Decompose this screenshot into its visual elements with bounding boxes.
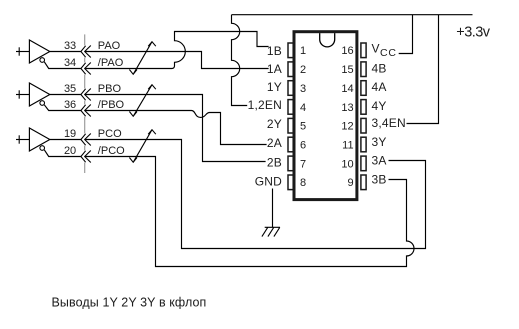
svg-text:PAO: PAO xyxy=(98,40,121,52)
IC notch xyxy=(320,33,335,47)
connector contact pin 36 (chevron pair) xyxy=(81,105,91,117)
pin 1 stub xyxy=(288,43,293,58)
svg-text:PBO: PBO xyxy=(98,83,122,95)
pin 9 stub xyxy=(361,175,366,190)
wire: 3,4EN to +3.3V rail xyxy=(407,15,439,124)
pin 15 stub xyxy=(361,62,366,77)
twisted-pair mark C xyxy=(129,130,155,163)
pin 12 stub xyxy=(361,118,366,133)
svg-text:2: 2 xyxy=(300,64,306,76)
wire: PAO to pin 1A xyxy=(85,52,269,69)
svg-text:33: 33 xyxy=(64,40,76,52)
connector contact pin 19 (chevron pair) xyxy=(81,134,91,146)
buffer/driver B triangle xyxy=(29,83,49,106)
pin 8 stub xyxy=(288,175,293,190)
svg-text:PCO: PCO xyxy=(98,128,122,140)
wire: buffer B non-inverting output to connector xyxy=(50,94,81,96)
svg-text:19: 19 xyxy=(64,128,76,140)
svg-text:3Y: 3Y xyxy=(372,135,387,149)
svg-text:20: 20 xyxy=(64,145,76,157)
pin 3 stub xyxy=(288,81,293,96)
wire: buffer B input stub xyxy=(16,94,29,96)
svg-text:3A: 3A xyxy=(372,154,387,168)
twisted-pair mark A xyxy=(129,42,155,75)
twisted-pair mark B xyxy=(129,85,155,117)
IC U1 DIP-16 body xyxy=(294,32,357,200)
svg-text:1A: 1A xyxy=(267,62,282,76)
svg-text:14: 14 xyxy=(341,83,353,95)
buffer A inverting bubble xyxy=(40,58,45,63)
svg-text:12: 12 xyxy=(341,121,353,133)
svg-text:6: 6 xyxy=(300,139,306,151)
svg-text:9: 9 xyxy=(347,177,353,189)
svg-text:CC: CC xyxy=(380,47,397,59)
svg-text:2Y: 2Y xyxy=(267,117,282,131)
svg-text:/PAO: /PAO xyxy=(98,57,124,69)
svg-text:4Y: 4Y xyxy=(372,99,387,113)
svg-text:4A: 4A xyxy=(372,80,387,94)
svg-text:/PCO: /PCO xyxy=(98,145,125,157)
svg-text:10: 10 xyxy=(341,158,353,170)
buffer C inverting bubble xyxy=(40,146,45,151)
buffer/driver C triangle xyxy=(29,128,49,151)
svg-text:2B: 2B xyxy=(267,155,282,169)
svg-text:1,2EN: 1,2EN xyxy=(248,98,282,112)
svg-text:4: 4 xyxy=(300,102,306,114)
svg-text:Выводы 1Y 2Y 3Y в кфлоп: Выводы 1Y 2Y 3Y в кфлоп xyxy=(52,295,207,309)
svg-text:GND: GND xyxy=(255,175,282,189)
node tick: buffer A input xyxy=(18,47,20,55)
svg-text:1: 1 xyxy=(300,45,306,57)
svg-text:15: 15 xyxy=(341,64,353,76)
buffer/driver A triangle xyxy=(29,40,49,63)
pin 6 stub xyxy=(288,137,293,152)
svg-text:11: 11 xyxy=(342,139,353,151)
wire: PCO to pin 3A via bottom bus xyxy=(85,140,426,249)
wire: buffer A inverting output to connector xyxy=(44,62,81,69)
wire: buffer C inverting output to connector xyxy=(44,150,81,157)
wire: GND pin to ground xyxy=(272,189,274,228)
pin 2 stub xyxy=(288,62,293,77)
wire: /PAO to pin 1B (up-and-over) xyxy=(85,32,269,69)
svg-text:36: 36 xyxy=(64,99,76,111)
connector boundary line (grey) xyxy=(84,34,86,173)
svg-text:4B: 4B xyxy=(372,61,387,75)
pin 14 stub xyxy=(361,81,366,96)
svg-text:3: 3 xyxy=(300,83,306,95)
svg-text:34: 34 xyxy=(64,57,76,69)
svg-text:+3.3v: +3.3v xyxy=(456,24,490,40)
svg-text:1Y: 1Y xyxy=(267,80,282,94)
svg-text:/PBO: /PBO xyxy=(98,99,125,111)
wire: buffer B inverting output to connector xyxy=(44,105,81,111)
wire: buffer A non-inverting output to connector xyxy=(50,51,81,53)
svg-text:3,4EN: 3,4EN xyxy=(372,116,406,130)
pin 11 stub xyxy=(361,137,366,152)
pin 10 stub xyxy=(361,156,366,171)
ground symbol xyxy=(262,227,280,236)
buffer B inverting bubble xyxy=(40,101,45,106)
pin 5 stub xyxy=(288,118,293,133)
connector contact pin 33 (chevron pair) xyxy=(81,46,91,58)
svg-text:35: 35 xyxy=(64,83,76,95)
svg-text:2A: 2A xyxy=(267,136,282,150)
node tick: buffer C input xyxy=(18,135,20,143)
connector contact pin 20 (chevron pair) xyxy=(81,151,91,163)
pin 16 stub xyxy=(361,43,366,58)
svg-text:16: 16 xyxy=(341,45,353,57)
svg-text:1B: 1B xyxy=(267,44,282,58)
pin 4 stub xyxy=(288,100,293,115)
wire: /PCO to pin 3B via bottom bus (hops over bus1) xyxy=(85,157,414,267)
connector contact pin 34 (chevron pair) xyxy=(81,63,91,75)
svg-text:7: 7 xyxy=(300,158,306,170)
wire: /PBO to pin 2A (dips under PBO riser) xyxy=(85,111,267,145)
wire: buffer C input stub xyxy=(16,139,29,141)
wire: PBO to pin 2B xyxy=(85,95,266,162)
svg-text:5: 5 xyxy=(300,121,306,133)
svg-text:13: 13 xyxy=(341,102,353,114)
svg-text:V: V xyxy=(372,41,380,55)
node tick: buffer B input xyxy=(18,90,20,98)
wire: 1,2EN riser from +3.3V rail (two hops) xyxy=(232,15,248,106)
svg-text:8: 8 xyxy=(300,177,306,189)
wire: VCC to +3.3V rail xyxy=(399,15,413,54)
svg-text:3B: 3B xyxy=(372,173,387,187)
pin 7 stub xyxy=(288,156,293,171)
connector contact pin 35 (chevron pair) xyxy=(81,89,91,101)
wire: buffer A input stub xyxy=(16,51,29,53)
power rail +3.3V xyxy=(232,14,473,16)
pin 13 stub xyxy=(361,100,366,115)
wire: buffer C non-inverting output to connector xyxy=(50,139,81,141)
